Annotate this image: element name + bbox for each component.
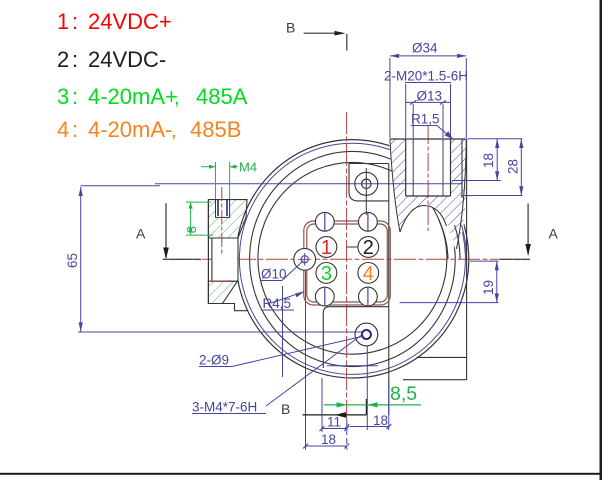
svg-text:1: 1 bbox=[321, 237, 332, 259]
M20 boss hatched band below bore bbox=[403, 196, 451, 229]
cavity funnel side curves bbox=[390, 139, 466, 249]
legend line 3: 4-20mA+ 485A bbox=[57, 84, 248, 109]
svg-text:485B: 485B bbox=[190, 117, 241, 142]
wire: blue horizontal reference line bottom (65 dim extension) bbox=[78, 331, 362, 333]
centerline vertical boss (red dash-dot) bbox=[427, 126, 429, 231]
left flange bottom hatched block bbox=[208, 281, 237, 303]
svg-text:,: , bbox=[174, 87, 180, 109]
svg-text:19: 19 bbox=[481, 280, 496, 295]
svg-text::: : bbox=[72, 9, 78, 34]
dimension diam13 bbox=[406, 100, 450, 138]
svg-text:B: B bbox=[286, 20, 295, 36]
section marker A left bbox=[136, 203, 201, 259]
svg-text::: : bbox=[72, 117, 78, 142]
mid circle housing wall bbox=[250, 151, 456, 366]
dimension 65 (left, blue) bbox=[79, 186, 160, 332]
mid circle tail arc right bbox=[455, 225, 461, 259]
svg-text:B: B bbox=[281, 401, 290, 417]
blue rim tail arc right bbox=[462, 225, 467, 259]
svg-text::: : bbox=[72, 47, 78, 72]
left flange left edge bbox=[207, 200, 209, 304]
svg-text:2-Ø9: 2-Ø9 bbox=[199, 353, 229, 368]
svg-text:65: 65 bbox=[65, 253, 80, 268]
svg-text:2: 2 bbox=[363, 237, 374, 259]
bottom dim extension lines bbox=[322, 346, 389, 450]
dimension 18 (bottom left) bbox=[303, 444, 349, 449]
wire: blue vertical projection line bbox=[282, 286, 284, 377]
svg-text:2: 2 bbox=[57, 47, 69, 72]
M20 boss hatched wedge left bbox=[390, 139, 406, 232]
dimension 19 (right) bbox=[400, 261, 499, 303]
wire: blue vertical extension from small screw bbox=[305, 271, 307, 450]
frame right border bbox=[600, 0, 602, 480]
top screw hole bbox=[355, 168, 378, 215]
left flange middle notch bbox=[212, 238, 238, 281]
svg-text:1: 1 bbox=[57, 9, 69, 34]
svg-text:18: 18 bbox=[321, 432, 336, 447]
inner bore circle bbox=[258, 162, 447, 354]
centerline horizontal (red dash-dot) bbox=[170, 258, 528, 260]
bottom screw hole bbox=[355, 323, 378, 346]
centerline vertical main (red dash-dot) bbox=[346, 112, 348, 420]
M20 thread hole outline bbox=[406, 139, 451, 196]
dimension M4 (green) bbox=[201, 162, 238, 199]
bottom screw boss outline bbox=[323, 307, 389, 368]
svg-text:M4: M4 bbox=[239, 160, 257, 175]
dimension 18 (bottom right) bbox=[344, 424, 391, 429]
boss front cover (hides circle arcs behind section) bbox=[389, 139, 467, 252]
inner circle tail arc right bbox=[439, 220, 448, 259]
svg-text:Ø13: Ø13 bbox=[417, 89, 443, 104]
svg-text:4: 4 bbox=[57, 117, 69, 142]
svg-text:,: , bbox=[171, 120, 177, 142]
terminal screw bottom-right bbox=[359, 287, 378, 307]
label diam10 with leader bbox=[261, 261, 304, 282]
dimension 8,5 (green) bbox=[324, 402, 421, 407]
svg-text:24VDC+: 24VDC+ bbox=[88, 9, 172, 34]
label 2-M20*1.5-6H bbox=[384, 69, 468, 139]
dimension 18 (boss right) bbox=[452, 139, 522, 181]
svg-text:24VDC-: 24VDC- bbox=[88, 47, 166, 72]
svg-text:8,5: 8,5 bbox=[390, 383, 417, 405]
svg-text:R4,5: R4,5 bbox=[263, 296, 292, 311]
svg-text:A: A bbox=[136, 226, 146, 242]
legend line 4: 4-20mA- 485B bbox=[57, 117, 241, 142]
left small screw circle (diam 10) bbox=[294, 248, 316, 270]
label 3-M4*7-6H with leader bbox=[192, 334, 363, 415]
svg-text:28: 28 bbox=[506, 159, 521, 174]
M4 hole in flange bbox=[216, 200, 230, 218]
right body outline bbox=[389, 139, 467, 415]
svg-text:4: 4 bbox=[363, 263, 374, 285]
frame bottom border bbox=[0, 473, 602, 475]
label 2-diam9 with leader bbox=[199, 336, 364, 368]
terminal block inner rounded rect bbox=[307, 224, 388, 302]
terminal screw top-right bbox=[359, 212, 378, 232]
svg-text:A: A bbox=[549, 226, 559, 242]
dimension 28 (boss right) bbox=[461, 139, 524, 196]
flange bottom hole centerline red bbox=[211, 280, 229, 282]
label R4,5 with leader bbox=[263, 291, 305, 311]
dimension 11 bbox=[320, 426, 350, 431]
svg-text:485A: 485A bbox=[196, 84, 248, 109]
legend line 1: 24VDC+ bbox=[57, 9, 172, 34]
left flange bottom step bbox=[208, 304, 248, 311]
terminal block outer rounded rect bbox=[304, 221, 391, 305]
M20 boss top edge bbox=[390, 138, 466, 140]
svg-text:2-M20*1.5-6H: 2-M20*1.5-6H bbox=[384, 69, 468, 84]
svg-text:11: 11 bbox=[327, 415, 341, 430]
flange M4 centerline red bbox=[221, 187, 223, 256]
svg-text:3: 3 bbox=[57, 84, 69, 109]
section marker A right bbox=[500, 204, 559, 260]
cavity dome arch bbox=[400, 206, 447, 233]
svg-text::: : bbox=[72, 84, 78, 109]
dimension diam34 (blue) bbox=[390, 54, 466, 138]
svg-text:3: 3 bbox=[321, 263, 332, 285]
outer circle bbox=[236, 140, 469, 378]
svg-text:4-20mA-: 4-20mA- bbox=[88, 117, 172, 142]
terminal 3 bbox=[316, 263, 337, 286]
dimension 8 (green) bbox=[186, 202, 213, 235]
svg-text:8: 8 bbox=[184, 226, 199, 233]
wire: blue chord at inner bore bottom bbox=[327, 365, 378, 367]
terminal screw bottom-left bbox=[315, 287, 334, 307]
section marker B top bbox=[286, 20, 347, 51]
svg-text:4-20mA+: 4-20mA+ bbox=[88, 84, 178, 109]
outer circle second rim bbox=[239, 143, 465, 374]
terminal 1 bbox=[316, 237, 337, 259]
terminal 4 bbox=[358, 263, 379, 286]
svg-text:Ø34: Ø34 bbox=[412, 41, 438, 56]
top screw boss outline bbox=[349, 164, 389, 201]
left flange top hatched block bbox=[208, 200, 247, 238]
terminal screw top-left bbox=[315, 212, 334, 232]
label R1,5 with leader bbox=[411, 112, 453, 140]
legend line 2: 24VDC- bbox=[57, 47, 166, 72]
wire: blue horizontal reference line through top screw bbox=[155, 183, 462, 185]
svg-text:3-M4*7-6H: 3-M4*7-6H bbox=[192, 400, 257, 415]
svg-text:R1,5: R1,5 bbox=[411, 112, 440, 127]
svg-text:18: 18 bbox=[481, 153, 496, 168]
terminal 2 bbox=[358, 237, 379, 259]
M20 boss hatched wedge right bbox=[450, 139, 467, 249]
leader to terminal 2 bbox=[347, 246, 358, 248]
section marker B bottom bbox=[281, 399, 366, 418]
svg-text:18: 18 bbox=[373, 413, 388, 428]
